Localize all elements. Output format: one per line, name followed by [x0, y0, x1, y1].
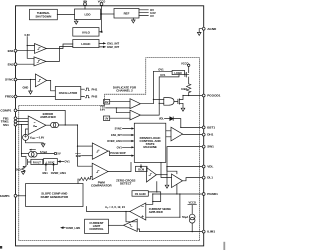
svg-text:CS GAIN: CS GAIN [135, 192, 146, 196]
svg-text:EN1_INT: EN1_INT [111, 133, 122, 137]
svg-text:FAULT: FAULT [33, 161, 41, 164]
svg-text:AMPLIFIER: AMPLIFIER [40, 115, 56, 119]
svg-text:SW1: SW1 [207, 145, 214, 149]
svg-text:AGND: AGND [207, 27, 217, 31]
svg-text:MACHINE: MACHINE [143, 145, 157, 149]
svg-text:RAMP GENERATOR: RAMP GENERATOR [41, 195, 69, 199]
svg-text:GND: GND [23, 85, 29, 89]
svg-text:1kΩ: 1kΩ [16, 168, 21, 171]
svg-text:50µA: 50µA [182, 215, 188, 219]
svg-text:OV1: OV1 [158, 67, 164, 71]
svg-text:OVER_LIM1: OVER_LIM1 [107, 139, 122, 143]
svg-text:OVER_LIM1: OVER_LIM1 [66, 227, 81, 230]
svg-text:UV1: UV1 [160, 73, 166, 77]
svg-text:DCM: DCM [138, 167, 144, 171]
svg-text:0.6V: 0.6V [25, 33, 31, 37]
svg-text:5V: 5V [57, 152, 60, 156]
svg-text:LDO: LDO [84, 12, 91, 16]
svg-text:DH1: DH1 [207, 133, 213, 137]
svg-text:OVER_LIM1: OVER_LIM1 [51, 171, 67, 175]
svg-text:AMPLIFIER: AMPLIFIER [149, 210, 163, 214]
svg-text:6.5µA: 6.5µA [40, 150, 47, 154]
svg-text:AV = 3, 6, 12, 24: AV = 3, 6, 12, 24 [105, 205, 125, 210]
svg-text:REF: REF [124, 11, 130, 15]
svg-text:UV: UV [105, 117, 109, 121]
svg-text:DETECT: DETECT [120, 182, 132, 186]
svg-text:EN1: EN1 [8, 49, 14, 53]
svg-text:VDL: VDL [159, 117, 165, 121]
svg-text:10kΩ: 10kΩ [181, 88, 187, 91]
svg-text:UV: UV [150, 14, 154, 18]
svg-text:LOGIC: LOGIC [46, 160, 54, 164]
svg-text:SYNC: SYNC [5, 78, 14, 82]
svg-text:SYNC: SYNC [115, 127, 122, 131]
svg-text:VIN: VIN [83, 0, 87, 3]
svg-text:EN1: EN1 [43, 171, 49, 175]
svg-text:OSCILLATOR: OSCILLATOR [59, 91, 78, 95]
svg-text:CHANNEL 2: CHANNEL 2 [116, 89, 133, 93]
svg-text:ILIM1: ILIM1 [207, 230, 215, 234]
svg-text:0.6V: 0.6V [100, 109, 105, 112]
svg-text:BST1: BST1 [207, 126, 215, 130]
svg-text:LOGIC: LOGIC [81, 42, 91, 46]
svg-text:PULSE SKIP: PULSE SKIP [110, 151, 126, 155]
svg-text:OV1: OV1 [64, 160, 70, 164]
svg-text:UVLO: UVLO [82, 31, 91, 35]
svg-text:VCCO: VCCO [188, 201, 196, 205]
svg-text:COMP1: COMP1 [0, 109, 11, 113]
svg-text:SHUTDOWN: SHUTDOWN [35, 15, 51, 19]
svg-text:PGND1: PGND1 [207, 192, 218, 196]
svg-text:ILIM: ILIM [76, 155, 81, 158]
svg-text:EN2: EN2 [8, 62, 14, 66]
svg-text:VREF = 0.6V: VREF = 0.6V [30, 136, 45, 141]
svg-text:SS1: SS1 [3, 123, 9, 127]
svg-text:VCCO: VCCO [181, 61, 189, 65]
svg-text:gm: gm [32, 124, 37, 128]
svg-text:CONTROL: CONTROL [89, 227, 104, 231]
svg-text:PH1: PH1 [92, 87, 98, 91]
svg-text:THERMAL: THERMAL [37, 11, 50, 15]
svg-text:COMPARATOR: COMPARATOR [91, 184, 112, 188]
svg-text:VDL: VDL [207, 165, 213, 169]
svg-text:VCCO: VCCO [98, 0, 106, 3]
svg-text:RAMP1: RAMP1 [0, 194, 10, 198]
svg-text:FREQ: FREQ [5, 95, 14, 99]
svg-text:LOGIC: LOGIC [175, 72, 183, 75]
svg-text:OV1: OV1 [117, 145, 123, 149]
svg-text:PH2: PH2 [92, 95, 98, 99]
svg-text:OV: OV [105, 100, 109, 104]
svg-text:DL1: DL1 [207, 176, 213, 180]
svg-text:PGOOD1: PGOOD1 [207, 94, 221, 98]
svg-text:EN2_INT: EN2_INT [107, 45, 119, 49]
